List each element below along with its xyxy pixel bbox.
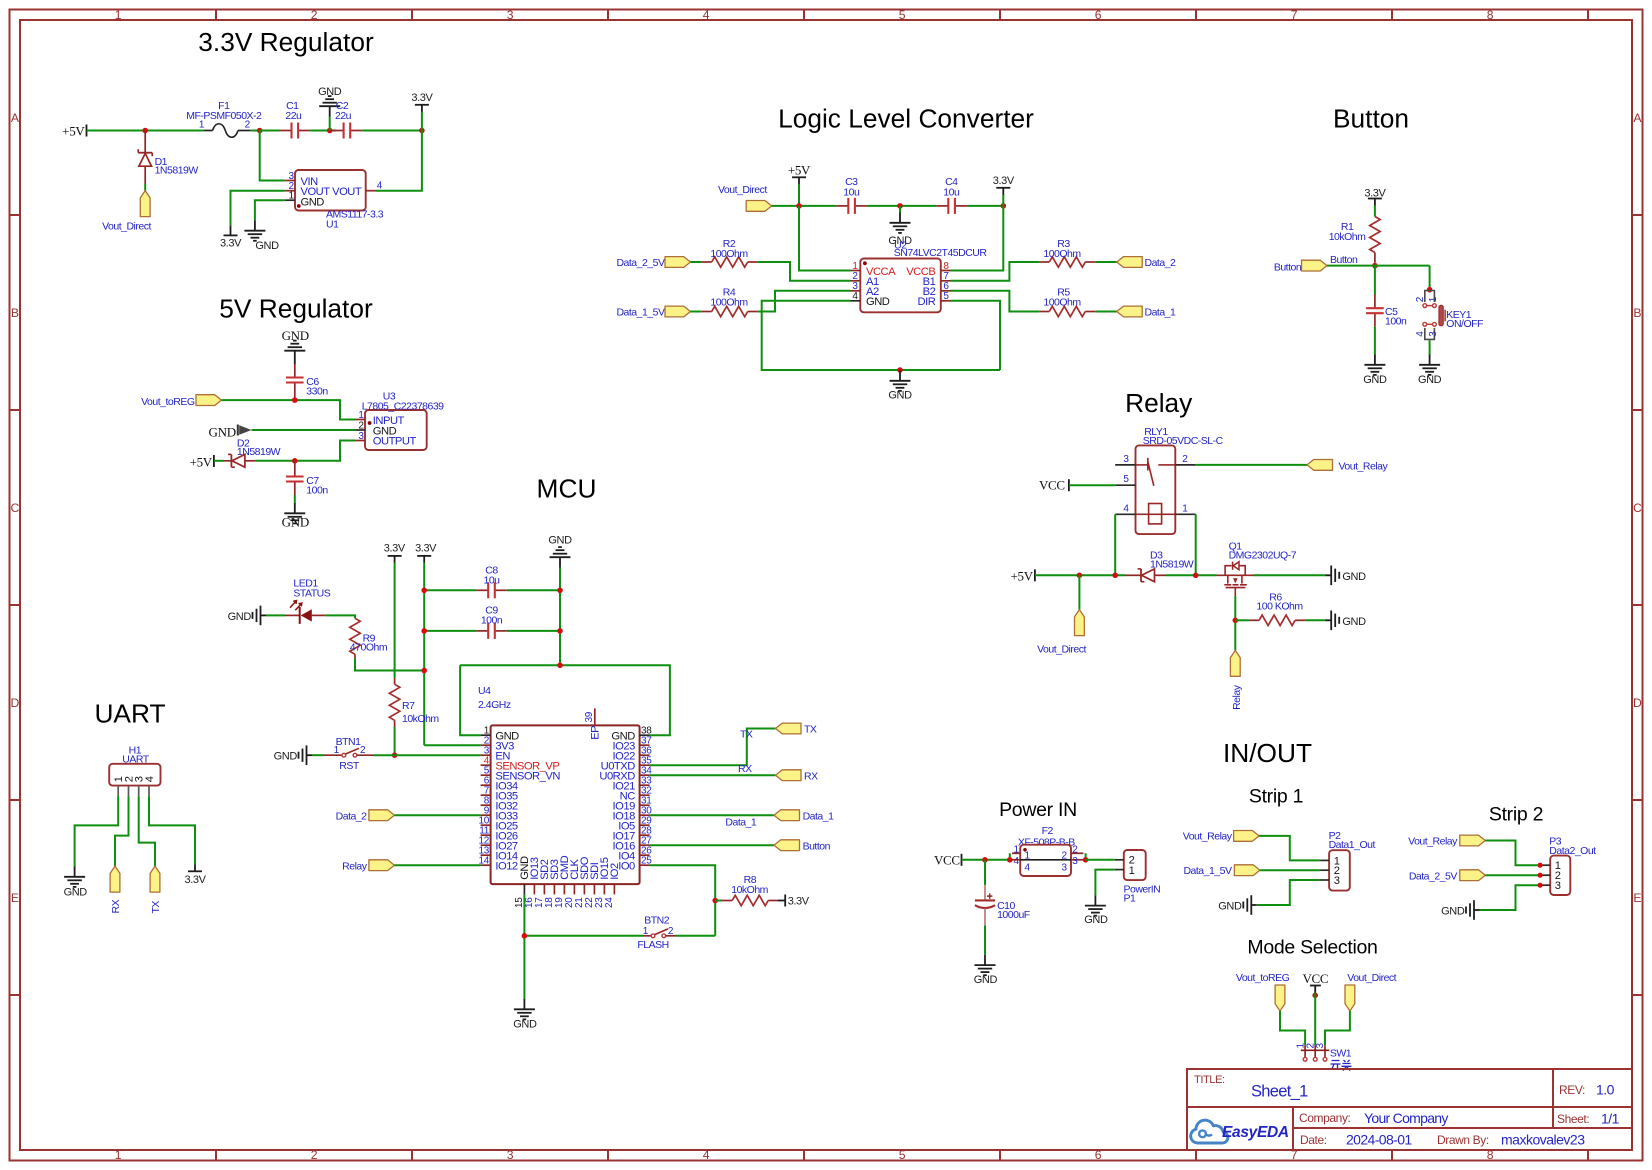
svg-text:Button: Button bbox=[1330, 254, 1358, 266]
svg-text:1: 1 bbox=[1025, 851, 1031, 862]
U4 right pin names bbox=[599, 730, 635, 872]
wire top rail bbox=[772, 205, 837, 207]
svg-text:UART: UART bbox=[94, 699, 165, 729]
svg-text:R7: R7 bbox=[402, 700, 415, 712]
svg-text:Sheet_1: Sheet_1 bbox=[1251, 1083, 1308, 1101]
wire rail right bbox=[967, 205, 1003, 207]
title block frame bbox=[1187, 1069, 1632, 1150]
wire +5V to D2 bbox=[214, 460, 223, 462]
svg-text:5: 5 bbox=[1123, 474, 1129, 485]
svg-text:3.3V: 3.3V bbox=[220, 237, 242, 249]
wire relay pin2 to Vout_Relay bbox=[1196, 464, 1307, 466]
svg-text:A: A bbox=[1633, 111, 1642, 125]
net flag Vout_Direct (LLC) bbox=[718, 184, 772, 211]
svg-text:GND: GND bbox=[209, 424, 236, 439]
wire D3 to coil right bbox=[1166, 574, 1217, 576]
svg-text:Vout_Direct: Vout_Direct bbox=[1037, 644, 1086, 656]
svg-text:22u: 22u bbox=[285, 110, 302, 122]
net flag Vout_Relay (strip1) bbox=[1183, 831, 1259, 843]
wire IO16 to Button flag bbox=[650, 844, 774, 846]
svg-text:1N5819W: 1N5819W bbox=[1150, 558, 1194, 570]
svg-text:10u: 10u bbox=[483, 574, 500, 586]
net flag Vout_toREG bbox=[141, 395, 221, 408]
svg-text:TX: TX bbox=[804, 724, 817, 736]
wire to R2 bbox=[691, 261, 702, 263]
transistor Q1 DMG2302UQ-7 bbox=[1217, 541, 1297, 596]
resistor R9 470Ohm bbox=[350, 618, 388, 658]
svg-text:GND: GND bbox=[548, 534, 572, 546]
wire R7 to EN row bbox=[394, 727, 396, 755]
svg-text:4: 4 bbox=[852, 291, 858, 302]
svg-text:2: 2 bbox=[358, 420, 364, 431]
node junction C9 left bbox=[421, 628, 427, 634]
net flag Data_2 bbox=[1117, 257, 1176, 269]
wire KEY1 to ground bbox=[1429, 340, 1431, 354]
wire U0RXD to RX flag bbox=[650, 774, 776, 776]
wire Data_2_5V to P3 pin2 bbox=[1485, 874, 1540, 876]
capacitor C4 10u bbox=[936, 176, 967, 214]
node junction bottom gnd bbox=[897, 367, 903, 373]
wire Data_1_5V to P2 pin2 bbox=[1260, 869, 1320, 871]
svg-text:4: 4 bbox=[1415, 331, 1426, 337]
svg-text:+5V: +5V bbox=[62, 124, 85, 139]
wire C8 row bbox=[424, 589, 560, 591]
svg-text:Drawn By:: Drawn By: bbox=[1437, 1133, 1489, 1147]
capacitor C10 1000uF bbox=[975, 860, 1030, 926]
resistor R7 10kOhm bbox=[389, 678, 439, 727]
net flag Data_1 bbox=[774, 810, 834, 823]
svg-text:REV:: REV: bbox=[1559, 1083, 1585, 1097]
svg-text:3.3V: 3.3V bbox=[1364, 187, 1386, 199]
svg-text:3: 3 bbox=[507, 1148, 514, 1162]
wire rail mid bbox=[867, 205, 936, 207]
wire IO18 to Data_1 flag bbox=[650, 814, 774, 816]
node junction P3 pin3 bbox=[1538, 883, 1543, 888]
net flag Button bbox=[1274, 260, 1327, 273]
title block texts bbox=[1194, 1074, 1620, 1148]
svg-text:1/1: 1/1 bbox=[1601, 1111, 1620, 1127]
svg-text:4: 4 bbox=[1123, 503, 1129, 514]
wire GND to P3 pin3 bbox=[1480, 885, 1541, 910]
capacitor C8 10u bbox=[476, 564, 507, 598]
svg-text:A: A bbox=[11, 111, 20, 125]
node junction P3 pin2 bbox=[1538, 873, 1543, 878]
wire GND stem bbox=[559, 568, 561, 666]
U4 right pin stubs bbox=[640, 735, 650, 865]
LED1 STATUS bbox=[285, 578, 331, 624]
svg-text:Vout_Direct: Vout_Direct bbox=[102, 221, 151, 233]
node junction KEY1 top bbox=[1427, 287, 1433, 293]
svg-text:Vout_Relay: Vout_Relay bbox=[1183, 831, 1233, 843]
wire relay pin1 down bbox=[1195, 514, 1197, 575]
net flag TX bbox=[776, 723, 817, 736]
wire to R4 bbox=[691, 311, 702, 313]
net flag RX (UART) bbox=[110, 866, 122, 913]
net flag Data_1_5V (strip1) bbox=[1183, 865, 1259, 877]
svg-text:3: 3 bbox=[1072, 856, 1078, 867]
wire R2 to U2 A1 bbox=[758, 262, 851, 281]
resistor R6 100 KOhm bbox=[1235, 592, 1305, 626]
wire to Vout_Direct flag bbox=[144, 184, 146, 191]
power flag 3.3V (button) bbox=[1364, 187, 1386, 205]
wire IO0 to R8/BTN2 bbox=[650, 865, 716, 936]
svg-text:ON/OFF: ON/OFF bbox=[1446, 318, 1483, 330]
svg-text:FLASH: FLASH bbox=[637, 939, 668, 951]
power flag 3.3V (left, R7) bbox=[384, 543, 406, 563]
svg-text:5: 5 bbox=[899, 1148, 906, 1162]
wire C7 to ground bbox=[294, 495, 296, 503]
ground (P1) bbox=[1084, 895, 1108, 926]
regulator U1 AMS1117-3.3 bbox=[285, 170, 384, 231]
svg-text:VCC: VCC bbox=[934, 853, 960, 868]
svg-text:Power IN: Power IN bbox=[999, 799, 1077, 821]
wire C1 to gnd node bbox=[310, 130, 336, 132]
relay RLY1 SRD-05VDC-SL-C bbox=[1115, 426, 1223, 534]
wire GND to BTN1 bbox=[312, 754, 324, 756]
svg-text:GND: GND bbox=[301, 196, 325, 208]
wire junction to C5 bbox=[1374, 266, 1376, 295]
svg-text:C: C bbox=[11, 501, 20, 515]
svg-text:10u: 10u bbox=[943, 186, 960, 198]
svg-text:DMG2302UQ-7: DMG2302UQ-7 bbox=[1229, 550, 1297, 562]
svg-text:D: D bbox=[11, 696, 20, 710]
resistor R4 100Ohm bbox=[702, 286, 758, 316]
svg-text:4: 4 bbox=[1025, 863, 1031, 874]
wire R4 to U2 A2 bbox=[758, 291, 851, 312]
svg-text:3: 3 bbox=[1123, 454, 1129, 465]
svg-text:3.3V: 3.3V bbox=[788, 896, 810, 908]
ground above C8 bbox=[548, 534, 572, 567]
wire 3.3V node to U1 VOUT pin4 bbox=[375, 131, 422, 191]
svg-text:Company:: Company: bbox=[1299, 1111, 1351, 1125]
svg-text:GND: GND bbox=[318, 86, 342, 98]
wire Vout_Direct to SW1 pin3 bbox=[1325, 1011, 1350, 1045]
net flag Data_2_5V bbox=[616, 257, 690, 269]
svg-text:Date:: Date: bbox=[1300, 1133, 1327, 1147]
svg-text:OUTPUT: OUTPUT bbox=[373, 436, 417, 448]
svg-text:GND: GND bbox=[228, 611, 252, 623]
svg-text:GND: GND bbox=[282, 515, 309, 530]
svg-text:7: 7 bbox=[1291, 8, 1298, 22]
svg-text:TX: TX bbox=[150, 901, 162, 914]
svg-text:2.4GHz: 2.4GHz bbox=[478, 699, 511, 711]
wire VCC to relay pin5 bbox=[1069, 484, 1115, 486]
net flag Data_1_5V bbox=[616, 306, 690, 319]
svg-text:RX: RX bbox=[804, 770, 818, 782]
svg-text:MCU: MCU bbox=[537, 474, 597, 504]
wire Relay to IO12 bbox=[394, 864, 480, 866]
svg-text:470Ohm: 470Ohm bbox=[350, 641, 388, 653]
power flag 3.3V (R8) bbox=[778, 895, 810, 908]
net flag Vout_Direct bbox=[102, 191, 151, 233]
ground under U1 bbox=[244, 220, 279, 252]
svg-text:SN74LVC2T45DCUR: SN74LVC2T45DCUR bbox=[894, 247, 988, 259]
svg-text:3: 3 bbox=[1062, 863, 1068, 874]
wire Q1 source to GND bbox=[1254, 574, 1327, 576]
net flag Data_2_5V (strip2) bbox=[1409, 870, 1485, 883]
svg-text:1: 1 bbox=[115, 1148, 122, 1162]
wire GND to P2 pin3 bbox=[1257, 880, 1320, 905]
wire +5V stem bbox=[798, 184, 800, 206]
capacitor C1 22u bbox=[280, 100, 311, 138]
power flag GND (Q1 source) bbox=[1326, 566, 1366, 586]
svg-text:GND: GND bbox=[888, 390, 912, 402]
svg-text:GND: GND bbox=[64, 887, 88, 899]
wire C2 to 3.3V node bbox=[362, 130, 422, 132]
svg-text:L7805_C22378639: L7805_C22378639 bbox=[362, 401, 444, 413]
svg-text:IO12: IO12 bbox=[495, 860, 518, 872]
svg-text:B: B bbox=[1633, 306, 1641, 320]
power flag 3.3V (right, C8/C9) bbox=[415, 543, 437, 563]
wire R9 to 3.3V net bbox=[355, 659, 424, 671]
svg-text:STATUS: STATUS bbox=[293, 588, 330, 600]
wire 3.3V to U4 3V3 pin bbox=[424, 744, 480, 746]
capacitor C6 330n bbox=[286, 364, 328, 398]
node junction coil right bbox=[1193, 573, 1199, 579]
svg-text:10kOhm: 10kOhm bbox=[731, 884, 768, 896]
wire U1 VOUT pin2 to 3.3V flag bbox=[231, 191, 285, 226]
svg-text:GND: GND bbox=[1218, 900, 1242, 912]
resistor R5 100Ohm bbox=[1039, 286, 1095, 316]
capacitor C9 100n bbox=[476, 605, 507, 639]
wire Vout_Direct stem (relay) bbox=[1078, 575, 1080, 609]
wire R5 to Data_1 bbox=[1095, 311, 1116, 313]
node junction 3.3V out bbox=[419, 128, 425, 134]
svg-text:4: 4 bbox=[1014, 856, 1020, 867]
svg-text:Button: Button bbox=[803, 840, 831, 852]
svg-text:Data_2: Data_2 bbox=[336, 810, 368, 822]
wire U1 GND pin1 to ground bbox=[255, 200, 285, 220]
wire pin15 GND down bbox=[523, 894, 525, 999]
wire C9 row bbox=[424, 630, 560, 632]
svg-text:2: 2 bbox=[1182, 454, 1188, 465]
connector P3 Data2_Out bbox=[1540, 835, 1596, 895]
wire VCC to F2 bbox=[962, 859, 1010, 861]
power flag VCC (power in) bbox=[934, 853, 962, 868]
node junction GND stem on loop bbox=[557, 663, 563, 669]
diode D2 1N5819W bbox=[223, 437, 281, 467]
power flag 3.3V (LLC) bbox=[993, 175, 1015, 206]
wire relay pin4 down bbox=[1114, 514, 1116, 575]
svg-text:2: 2 bbox=[668, 926, 674, 937]
svg-text:100Ohm: 100Ohm bbox=[1043, 248, 1081, 260]
wire 3.3V to R1 bbox=[1374, 206, 1376, 217]
node junction button net bbox=[1372, 263, 1378, 269]
node junction after F1 bbox=[257, 128, 263, 134]
svg-text:1: 1 bbox=[115, 8, 122, 22]
ground (above rail) bbox=[318, 86, 342, 131]
U4 bottom pin stubs bbox=[524, 884, 614, 894]
U4 left pin names bbox=[495, 730, 560, 872]
svg-text:22u: 22u bbox=[335, 110, 352, 122]
svg-text:4: 4 bbox=[144, 776, 156, 782]
node junction C7 tap bbox=[292, 458, 298, 464]
svg-text:100Ohm: 100Ohm bbox=[1043, 296, 1081, 308]
ground (C10) bbox=[974, 955, 998, 986]
wire down to KEY1 bbox=[1429, 266, 1431, 290]
svg-text:Mode Selection: Mode Selection bbox=[1247, 936, 1377, 958]
svg-text:GND: GND bbox=[513, 1018, 537, 1030]
svg-text:TITLE:: TITLE: bbox=[1194, 1074, 1225, 1086]
svg-text:EP: EP bbox=[589, 726, 601, 740]
svg-text:GND: GND bbox=[274, 751, 298, 763]
svg-text:P1: P1 bbox=[1124, 893, 1137, 905]
resistor R2 100Ohm bbox=[702, 238, 758, 267]
svg-text:GND: GND bbox=[866, 296, 890, 308]
wire fuse to node bbox=[251, 130, 260, 132]
net flag TX (UART) bbox=[150, 866, 162, 913]
svg-text:8: 8 bbox=[1487, 8, 1494, 22]
node junction C9 right bbox=[557, 628, 563, 634]
ground under C5 bbox=[1363, 355, 1387, 387]
svg-text:+5V: +5V bbox=[190, 454, 213, 469]
wire node to C1 bbox=[260, 130, 280, 132]
svg-text:Data_1: Data_1 bbox=[1145, 307, 1177, 319]
node junction F2 left bbox=[1007, 857, 1013, 863]
svg-text:Relay: Relay bbox=[1125, 388, 1193, 418]
wire GND loop to pin 38 bbox=[460, 665, 670, 735]
svg-text:Data_1: Data_1 bbox=[725, 816, 757, 828]
node junction C8 right bbox=[557, 588, 563, 594]
IC U2 SN74LVC2T45DCUR bbox=[851, 239, 988, 312]
capacitor C5 100n bbox=[1366, 295, 1407, 328]
fuse F2 XF-508P-B-B bbox=[1012, 825, 1083, 876]
wire U2 GND pin to bottom rail bbox=[762, 301, 1000, 370]
diode D3 1N5819W bbox=[1125, 549, 1194, 581]
ground bottom (MCU) bbox=[513, 999, 537, 1030]
switch KEY1 ON/OFF bbox=[1415, 291, 1483, 340]
svg-text:Data_1_5V: Data_1_5V bbox=[616, 307, 665, 319]
wire R6 to GND bbox=[1305, 619, 1326, 621]
svg-text:1N5819W: 1N5819W bbox=[237, 446, 281, 458]
ground bottom (LLC) bbox=[888, 371, 912, 402]
power flag GND arrow (U3 GND pin) bbox=[209, 424, 252, 439]
node junction at D1 bbox=[142, 128, 148, 134]
U4 bottom pin numbers bbox=[514, 897, 615, 908]
svg-text:DIR: DIR bbox=[918, 296, 936, 308]
svg-text:SW1: SW1 bbox=[1330, 1048, 1352, 1060]
svg-text:1N5819W: 1N5819W bbox=[155, 165, 199, 177]
wire Vout_Relay to P3 pin1 bbox=[1485, 841, 1540, 866]
wire 3.3V left stem bbox=[394, 563, 396, 678]
svg-text:4: 4 bbox=[703, 1148, 710, 1162]
net flag Vout_Relay bbox=[1307, 460, 1388, 473]
ground under rail (LLC) bbox=[888, 206, 912, 247]
node junction C8 left bbox=[421, 588, 427, 594]
svg-text:2: 2 bbox=[1415, 296, 1426, 302]
svg-text:VCC: VCC bbox=[1039, 477, 1065, 492]
ground (UART) bbox=[64, 867, 88, 899]
svg-text:Your Company: Your Company bbox=[1364, 1110, 1448, 1126]
net flag Vout_Direct (relay) bbox=[1037, 610, 1086, 656]
node junction Vout_Direct tap bbox=[1077, 573, 1083, 579]
svg-text:3.3V: 3.3V bbox=[384, 543, 406, 555]
svg-text:3.3V: 3.3V bbox=[411, 92, 433, 104]
svg-text:RX: RX bbox=[738, 763, 752, 775]
connector P1 PowerIN bbox=[1115, 850, 1160, 905]
svg-text:GND: GND bbox=[255, 240, 279, 252]
power flag GND (BTN1 side) bbox=[274, 745, 312, 765]
svg-text:maxkovalev23: maxkovalev23 bbox=[1501, 1132, 1585, 1148]
svg-text:1: 1 bbox=[1129, 865, 1135, 877]
svg-text:Vout_Relay: Vout_Relay bbox=[1339, 460, 1389, 472]
svg-text:RST: RST bbox=[339, 760, 360, 772]
svg-text:1: 1 bbox=[643, 926, 649, 937]
svg-text:Strip 2: Strip 2 bbox=[1489, 804, 1543, 826]
svg-text:Vout_Relay: Vout_Relay bbox=[1408, 836, 1458, 848]
svg-text:100n: 100n bbox=[306, 485, 328, 497]
power flag GND (strip2) bbox=[1441, 900, 1479, 920]
svg-text:U4: U4 bbox=[478, 685, 491, 697]
svg-text:E: E bbox=[11, 891, 19, 905]
MCU U4 2.4GHz bbox=[478, 685, 640, 884]
svg-text:100n: 100n bbox=[1385, 315, 1407, 327]
ground under KEY1 bbox=[1418, 355, 1442, 387]
svg-text:10kOhm: 10kOhm bbox=[1329, 231, 1366, 243]
svg-text:EasyEDA: EasyEDA bbox=[1222, 1124, 1289, 1141]
wire P1 pin1 to GND bbox=[1095, 870, 1115, 896]
svg-text:3: 3 bbox=[1334, 875, 1340, 887]
svg-text:24: 24 bbox=[604, 897, 615, 908]
svg-text:39: 39 bbox=[584, 711, 595, 722]
svg-text:Logic Level Converter: Logic Level Converter bbox=[778, 104, 1034, 134]
node junction F2 right bbox=[1083, 857, 1089, 863]
svg-text:GND: GND bbox=[1084, 914, 1108, 926]
svg-text:Strip 1: Strip 1 bbox=[1249, 785, 1303, 807]
node junction coil left bbox=[1112, 573, 1118, 579]
diode D1 1N5819W bbox=[138, 131, 198, 185]
svg-text:100 KOhm: 100 KOhm bbox=[1256, 601, 1303, 613]
wire 3.3V right stem bbox=[423, 563, 425, 745]
node junction gate/R6 bbox=[1233, 618, 1239, 624]
wire H1 pin3 to TX bbox=[139, 796, 155, 866]
connector P2 Data1_Out bbox=[1320, 830, 1375, 891]
wire BTN2 left to GND net bbox=[524, 935, 643, 937]
svg-text:+5V: +5V bbox=[788, 163, 811, 178]
svg-text:1: 1 bbox=[289, 191, 295, 202]
power flag +5V (LLC) bbox=[788, 163, 811, 184]
svg-text:1: 1 bbox=[1182, 503, 1188, 514]
wire node to U1 VIN bbox=[260, 131, 285, 181]
wire H1 pin2 to RX bbox=[115, 796, 129, 866]
svg-text:3.3V: 3.3V bbox=[184, 874, 206, 886]
svg-text:2: 2 bbox=[311, 8, 318, 22]
svg-text:Data_2: Data_2 bbox=[1145, 257, 1177, 269]
wire +5V rail bbox=[87, 130, 204, 132]
svg-text:Sheet:: Sheet: bbox=[1557, 1112, 1589, 1126]
net flag Vout_toREG (mode) bbox=[1236, 972, 1290, 1011]
node junction P3 pin1 bbox=[1538, 863, 1543, 868]
svg-text:3: 3 bbox=[1555, 880, 1561, 892]
wire D2 to node and U3 OUTPUT bbox=[255, 441, 355, 461]
power flag VCC (relay) bbox=[1039, 477, 1069, 492]
svg-text:GND: GND bbox=[1418, 374, 1442, 386]
wire C5 to ground bbox=[1374, 327, 1376, 355]
svg-text:TX: TX bbox=[740, 728, 753, 740]
svg-text:RX: RX bbox=[110, 899, 122, 913]
node junction EN bbox=[392, 752, 398, 758]
wire Vout_toREG to SW1 pin1 bbox=[1280, 1011, 1305, 1045]
resistor R8 10kOhm bbox=[715, 874, 778, 906]
svg-text:Vout_Direct: Vout_Direct bbox=[1347, 972, 1396, 984]
wire H1 pin4 to 3.3V bbox=[149, 796, 195, 864]
capacitor C3 10u bbox=[836, 176, 867, 214]
svg-text:Vout_toREG: Vout_toREG bbox=[141, 396, 195, 408]
node junction 3.3V rail bbox=[1001, 203, 1007, 209]
wire F2 to P1 bbox=[1086, 859, 1115, 861]
svg-text:10u: 10u bbox=[843, 186, 860, 198]
net flag Relay (MCU) bbox=[342, 860, 394, 873]
